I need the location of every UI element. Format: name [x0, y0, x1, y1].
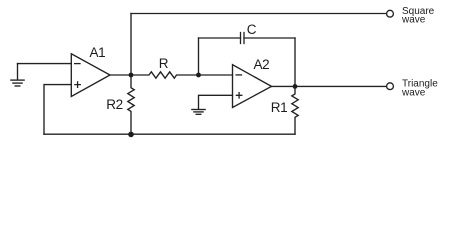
resistor R (horizontal): [131, 72, 199, 78]
node A junction dot: [129, 73, 134, 78]
wire A1 output to node A: [110, 74, 131, 76]
wire A1 non-inverting input feedback (left and down): [44, 85, 71, 135]
wire capacitor right side down to node C: [294, 38, 296, 86]
terminal triangle-wave output: [387, 83, 394, 90]
op-amp A2: [233, 65, 272, 108]
svg-text:A2: A2: [254, 57, 270, 72]
svg-text:R2: R2: [106, 97, 122, 112]
wire node B up to capacitor: [198, 38, 200, 75]
svg-text:A1: A1: [90, 45, 106, 60]
node C junction dot: [293, 84, 298, 89]
svg-text:C: C: [247, 22, 257, 37]
wire node B to A2 inverting input: [199, 74, 233, 76]
svg-text:wave: wave: [401, 15, 426, 26]
terminal square-wave output: [387, 10, 394, 17]
wire node C to triangle-wave terminal: [295, 85, 387, 87]
capacitor C (feedback): [199, 33, 296, 44]
wire square-wave line (top): [131, 13, 387, 15]
ground G1 (left, at A1 inverting input): [11, 64, 24, 86]
resistor R2 (vertical): [128, 75, 134, 134]
resistor R1 (vertical): [292, 86, 298, 134]
wire A2 output to node C: [272, 85, 296, 87]
wire A2 non-inverting input to ground G2: [199, 95, 233, 109]
node B junction dot: [196, 73, 201, 78]
svg-text:R: R: [159, 56, 169, 71]
ground G2 (below A2 non-inverting input): [192, 110, 205, 115]
op-amp A1: [71, 54, 110, 97]
node bottom junction dot (R2 to bottom rail): [128, 132, 134, 138]
wire node A up to square-wave line: [130, 14, 132, 76]
wire ground G1 to A1 inverting input: [18, 63, 72, 65]
svg-text:R1: R1: [271, 100, 287, 115]
wire bottom rail: [44, 133, 295, 135]
svg-text:wave: wave: [401, 87, 426, 98]
